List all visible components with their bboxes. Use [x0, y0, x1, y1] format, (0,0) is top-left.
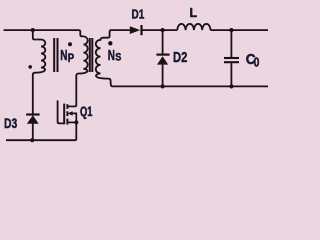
inductor L: [177, 24, 210, 30]
svg-text:L: L: [190, 5, 198, 20]
transformer core: [54, 38, 92, 72]
wire Np bottom to Q1 drain: [75, 77, 77, 106]
wire top rail (input + to Np top): [4, 30, 84, 36]
node: rail / reset winding: [31, 28, 35, 32]
winding Ns secondary: [96, 30, 130, 84]
transistor Q1 MOSFET: [64, 104, 76, 125]
svg-text:0: 0: [254, 54, 260, 69]
wire Ns bottom to output rail: [111, 84, 268, 86]
node: C0 / output rail: [229, 84, 233, 88]
svg-text:D3: D3: [4, 115, 17, 131]
wire D2 anode to rail: [162, 65, 164, 87]
wire D3 anode down: [32, 124, 34, 141]
winding reset (tertiary): [33, 40, 46, 78]
wire C0 bottom branch: [230, 63, 232, 86]
node: D3 / primary return: [30, 138, 34, 142]
polarity dot Np: [68, 42, 72, 46]
diode D3: [26, 115, 39, 124]
svg-text:S: S: [115, 52, 121, 64]
winding Np primary: [76, 36, 87, 77]
diode D2: [156, 55, 169, 65]
wire reset-winding top lead: [33, 30, 37, 39]
node: D1 cathode / D2: [161, 28, 165, 32]
node: L / C0: [229, 28, 233, 32]
polarity dot reset winding: [28, 65, 32, 69]
wire bottom-left rail (primary return): [6, 139, 76, 141]
svg-text:D1: D1: [132, 6, 145, 21]
node: D2 / output rail: [161, 84, 165, 88]
wire Q1 gate input stub: [58, 100, 65, 123]
svg-text:D2: D2: [173, 50, 187, 66]
capacitor C0 plates: [224, 58, 239, 62]
Q1 body arrow: [67, 111, 72, 115]
svg-text:P: P: [68, 51, 75, 65]
wire D1 cathode to L: [142, 29, 177, 31]
svg-text:N: N: [108, 48, 115, 64]
polarity dot Ns: [108, 41, 112, 45]
wire reset winding to D3: [32, 77, 34, 114]
node: Q1 source/body: [74, 120, 78, 124]
wire Q1 source down: [75, 122, 77, 140]
svg-text:N: N: [60, 48, 67, 64]
wire L to output: [211, 29, 269, 31]
wire C0 top branch: [230, 30, 232, 57]
wire D2 branch top: [162, 30, 164, 54]
svg-text:Q1: Q1: [80, 104, 93, 119]
diode D1: [130, 25, 142, 35]
